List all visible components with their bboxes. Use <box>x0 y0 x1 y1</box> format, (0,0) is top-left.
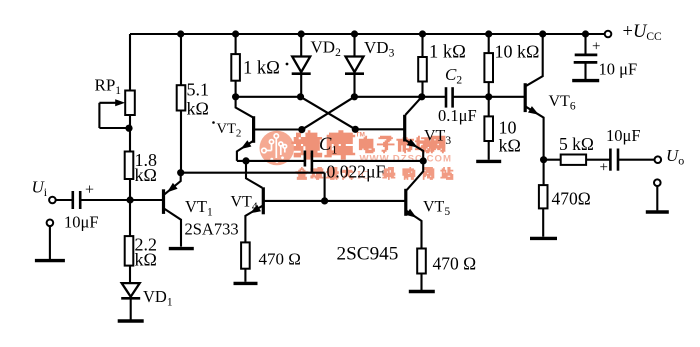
svg-text:10 kΩ: 10 kΩ <box>495 42 540 62</box>
svg-text:Uo: Uo <box>666 146 684 168</box>
svg-text:0.022μF: 0.022μF <box>327 161 386 181</box>
svg-text:VT4: VT4 <box>231 194 258 214</box>
svg-text:TM: TM <box>356 132 365 139</box>
svg-text:470 Ω: 470 Ω <box>259 250 301 269</box>
svg-text:VD2: VD2 <box>311 37 342 59</box>
svg-text:+UCC: +UCC <box>623 22 662 43</box>
svg-text:10: 10 <box>499 118 517 138</box>
svg-text:C2: C2 <box>445 65 462 87</box>
svg-text:VT6: VT6 <box>549 93 576 113</box>
svg-text:VT1: VT1 <box>185 197 213 219</box>
svg-text:kΩ: kΩ <box>135 250 157 270</box>
svg-text:VD3: VD3 <box>364 38 395 60</box>
svg-text:10μF: 10μF <box>64 213 99 232</box>
svg-text:5.1: 5.1 <box>187 80 210 100</box>
svg-text:5 kΩ: 5 kΩ <box>559 134 594 154</box>
svg-text:0.1μF: 0.1μF <box>438 106 477 125</box>
svg-text:VT3: VT3 <box>424 128 451 148</box>
svg-text:470Ω: 470Ω <box>552 189 591 209</box>
svg-text:kΩ: kΩ <box>499 136 521 156</box>
svg-text:10 μF: 10 μF <box>599 60 638 79</box>
svg-text:VD1: VD1 <box>143 287 173 309</box>
svg-text:470 Ω: 470 Ω <box>433 254 477 274</box>
svg-text:Ui: Ui <box>32 178 48 200</box>
svg-text:+: + <box>600 160 608 176</box>
svg-text:VT5: VT5 <box>423 199 450 219</box>
svg-text:1 kΩ: 1 kΩ <box>429 43 466 63</box>
svg-text:10μF: 10μF <box>606 126 641 145</box>
svg-text:+: + <box>85 182 94 199</box>
svg-text:1 kΩ: 1 kΩ <box>243 59 280 79</box>
svg-text:kΩ: kΩ <box>135 165 157 185</box>
svg-text:+: + <box>592 39 600 55</box>
svg-text:2SC945: 2SC945 <box>337 244 399 265</box>
svg-text:kΩ: kΩ <box>187 99 209 119</box>
svg-text:2SA733: 2SA733 <box>185 220 239 239</box>
svg-text:VT2: VT2 <box>217 121 242 140</box>
svg-text:RP1: RP1 <box>95 76 122 98</box>
